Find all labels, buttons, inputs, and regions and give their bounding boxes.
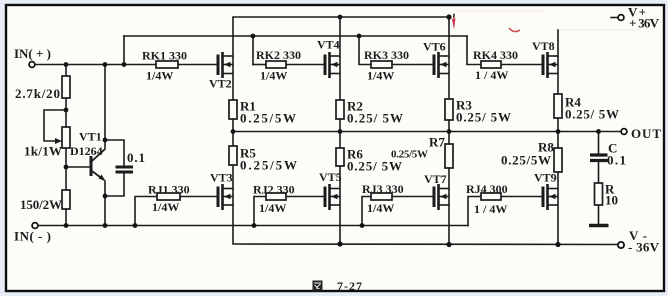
resistor 2.7k/20 [62, 76, 70, 98]
svg-text:0.1: 0.1 [607, 153, 626, 168]
terminal V- [618, 242, 624, 248]
svg-text:D1264: D1264 [70, 144, 103, 158]
wire R3 to output rail to R7 [448, 120, 450, 144]
resistor RK4 [481, 61, 501, 68]
svg-text:150/2W: 150/2W [20, 197, 62, 212]
svg-text:7-27: 7-27 [337, 279, 362, 293]
wire RJ1 gate riser [135, 197, 157, 226]
wire RK2 gate feed drop [252, 36, 254, 65]
svg-text:0.25/ 5W: 0.25/ 5W [347, 159, 402, 174]
wire RK2 to feed [253, 64, 266, 66]
node emitter on IN(-) rail [103, 223, 108, 228]
mosfet VT7 [434, 184, 449, 210]
resistor R1 [229, 100, 237, 119]
resistor R7 [445, 144, 453, 168]
resistor R 10 [595, 183, 603, 205]
svg-text:VT2: VT2 [209, 77, 232, 91]
wire RJ3 gate riser [362, 197, 371, 226]
wire output C branch [598, 132, 600, 154]
wire VT2 source to R1 [232, 74, 234, 101]
mosfet VT5 [325, 184, 340, 210]
transistor VT1 (D1264) [91, 150, 106, 182]
wire output rail [233, 131, 621, 133]
wire VT1 emitter drop [104, 181, 106, 226]
svg-text:1/4W: 1/4W [152, 200, 179, 214]
node V- rail VT9 [555, 242, 560, 247]
wire RJ2 to VT5 gate [286, 196, 325, 198]
wire V+ rail A [233, 17, 449, 56]
wire cap 0.1 bottom to emitter node [106, 173, 124, 196]
resistor RJ1 [157, 193, 180, 200]
wire RK2 to VT4 gate [286, 64, 325, 66]
potentiometer 1k/1W [62, 127, 70, 148]
node RJ1 tap [133, 223, 138, 228]
mosfet VT9 [543, 184, 558, 210]
node rail B RK2 tap [251, 34, 256, 39]
wire RK1 to VT2 gate [178, 64, 218, 66]
resistor R6 [336, 148, 344, 166]
node IN(+) VT1 collector tap [103, 62, 108, 67]
svg-text:+ 36V: + 36V [629, 16, 660, 31]
resistor R2 [336, 100, 344, 119]
red pen artifact curve [509, 28, 520, 32]
capacitor 0.1 (VT1 compensation) [116, 167, 134, 172]
svg-text:0.25/ 5W: 0.25/ 5W [565, 107, 619, 122]
svg-text:RJ1 330: RJ1 330 [148, 183, 190, 197]
svg-text:0.25/5W: 0.25/5W [501, 153, 551, 168]
terminal V+ [618, 15, 624, 21]
wire R7 to VT7 drain [448, 168, 450, 189]
wire riser to gate rail B [123, 36, 125, 65]
svg-text:IN( - ): IN( - ) [14, 229, 51, 244]
node 150 resistor on IN(-) rail [64, 223, 69, 228]
node output R1/R5 [231, 129, 236, 134]
wire RK3 gate feed drop [359, 36, 371, 65]
svg-text:OUT: OUT [631, 126, 661, 141]
svg-text:RJ3 330: RJ3 330 [362, 182, 404, 196]
wire C to R10 [598, 162, 600, 183]
svg-text:0.25/ 5W: 0.25/ 5W [347, 111, 403, 126]
ground [589, 224, 609, 227]
svg-text:1/4W: 1/4W [367, 201, 394, 215]
mosfet VT3 [218, 184, 233, 210]
wire VT5 source drop [339, 205, 341, 244]
svg-text:VT7: VT7 [424, 172, 447, 186]
wire R2 to output rail to R6 [339, 119, 341, 148]
svg-text:1/4W: 1/4W [259, 201, 286, 215]
node RJ2 tap [252, 223, 257, 228]
resistor RK1 [156, 61, 178, 68]
svg-text:VT9: VT9 [534, 171, 557, 185]
resistor RJ2 [266, 193, 286, 200]
wire RJ3 to VT7 gate [392, 196, 434, 198]
svg-text:1 / 4W: 1 / 4W [475, 68, 508, 82]
mosfet VT8 [543, 52, 558, 78]
svg-text:RK3 330: RK3 330 [364, 48, 409, 62]
red scan smudge top [455, 10, 545, 12]
wire VT6 source to R3 [448, 74, 450, 100]
node VT1 base [64, 165, 69, 170]
wire IN(-) rail C [38, 225, 468, 227]
resistor RJ3 [371, 193, 392, 200]
wire V+ terminal stub [611, 17, 618, 19]
red pen artifact arrow [453, 14, 455, 19]
svg-text:- 36V: - 36V [628, 240, 660, 255]
terminal IN(+) [29, 62, 35, 68]
wire VT4 drain [339, 17, 341, 56]
svg-text:RJ2 330: RJ2 330 [253, 183, 295, 197]
wire RJ2 gate riser [254, 197, 266, 226]
svg-text:1 / 4W: 1 / 4W [474, 202, 507, 216]
wire R8 to VT9 drain [557, 172, 559, 189]
node V- rail VT7 [446, 242, 451, 247]
wire RK4 to VT8 gate [501, 64, 543, 66]
wire VT4 source to R2 [339, 74, 341, 101]
svg-text:1/4W: 1/4W [260, 69, 287, 83]
wire RK4 gate feed drop [467, 36, 481, 65]
node IN(+) rail riser [122, 62, 127, 67]
terminal OUT [621, 129, 627, 135]
svg-text:VT3: VT3 [210, 171, 233, 185]
red scan smudge right [560, 29, 640, 31]
svg-text:VT5: VT5 [319, 170, 342, 184]
node output R4/R8 [556, 129, 561, 134]
node VT1 collector [103, 138, 108, 143]
svg-text:VT1: VT1 [79, 130, 102, 144]
resistor 150/2W [62, 190, 70, 209]
svg-text:RK2 330: RK2 330 [256, 48, 301, 62]
node rail A VT4 drain [338, 15, 343, 20]
resistor RK2 [266, 61, 286, 68]
wire 150 resistor to IN(-) rail [65, 209, 67, 226]
resistor R4 [554, 94, 562, 118]
svg-text:VT6: VT6 [423, 40, 446, 54]
capacitor C 0.1 (output zobel) [590, 155, 608, 161]
resistor R8 [554, 148, 562, 172]
wire collector node to cap 0.1 [105, 140, 124, 166]
node rail B RK3 tap [357, 34, 362, 39]
wire VT6 drain [448, 17, 450, 56]
svg-text:RK1 330: RK1 330 [142, 49, 187, 63]
wire VT3 source to V- rail [233, 205, 617, 245]
wire RJ4 gate riser [468, 197, 481, 226]
mosfet VT6 [434, 52, 449, 78]
node output R3/R7 [447, 129, 452, 134]
mosfet VT4 [325, 52, 340, 78]
resistor RJ4 [481, 193, 501, 200]
wire pot bottom to base node [65, 148, 67, 167]
wire VT7 source drop [448, 205, 450, 245]
svg-text:0.25/5W: 0.25/5W [391, 149, 428, 161]
svg-text:0.1: 0.1 [127, 150, 145, 165]
node pot top [64, 108, 69, 113]
node IN(+) 2.7k tap [64, 62, 69, 67]
svg-text:R7: R7 [429, 135, 445, 150]
resistor R3 [445, 99, 453, 120]
svg-text:0.25/ 5W: 0.25/ 5W [456, 110, 511, 125]
svg-text:10: 10 [605, 193, 618, 208]
node V- rail VT5 [337, 241, 342, 246]
wire gate rail B [124, 35, 467, 37]
svg-text:RJ4 300: RJ4 300 [466, 182, 508, 196]
wire VT8 drain stub [557, 30, 559, 56]
wire pot wiper bypass [44, 110, 66, 141]
wire 2.7k bottom to pot [65, 98, 67, 127]
mosfet VT2 [218, 52, 233, 78]
svg-text:1k/1W: 1k/1W [24, 144, 62, 159]
node VT1 emitter cap join [103, 194, 108, 199]
terminal IN(-) [32, 223, 38, 229]
wire R1 to output rail to R5 [232, 119, 234, 146]
svg-text:2.7k/20: 2.7k/20 [15, 86, 60, 101]
wire 2.7k top lead [65, 65, 67, 77]
resistor RK3 [371, 61, 392, 68]
wire VT1 base lead [66, 166, 90, 168]
svg-text:1/4W: 1/4W [367, 69, 394, 83]
svg-text:IN( + ): IN( + ) [14, 46, 51, 61]
svg-text:VT4: VT4 [317, 38, 340, 52]
svg-text:RK4 330: RK4 330 [473, 48, 518, 62]
svg-text:VT8: VT8 [532, 39, 555, 53]
svg-text:1/4W: 1/4W [146, 69, 173, 83]
node rail A VT6 drain [446, 14, 451, 19]
wire input node to VT1 collector [104, 65, 106, 150]
wire R6 to VT5 drain [339, 166, 341, 189]
wire base node to 150 resistor [65, 167, 67, 190]
wire VT8 source to R4 [557, 74, 559, 95]
node output R2/R6 [338, 129, 343, 134]
caption figure glyph 图 [313, 281, 323, 291]
wire R10 to ground [598, 205, 600, 224]
wire IN(+) lead to RK1 [35, 64, 156, 66]
wire VT9 source drop [557, 205, 559, 245]
wire R5 to VT3 drain [232, 165, 234, 189]
node RJ3 tap [360, 223, 365, 228]
wire RK3 to VT6 gate [392, 64, 434, 66]
potentiometer wiper arrow [55, 138, 62, 144]
wire R4 to output rail to R8 [557, 118, 559, 148]
wire RJ4 to VT9 gate [501, 196, 543, 198]
wire RJ1 to VT3 gate [180, 196, 218, 198]
node output zobel tap [596, 129, 601, 134]
resistor R5 [229, 146, 237, 165]
